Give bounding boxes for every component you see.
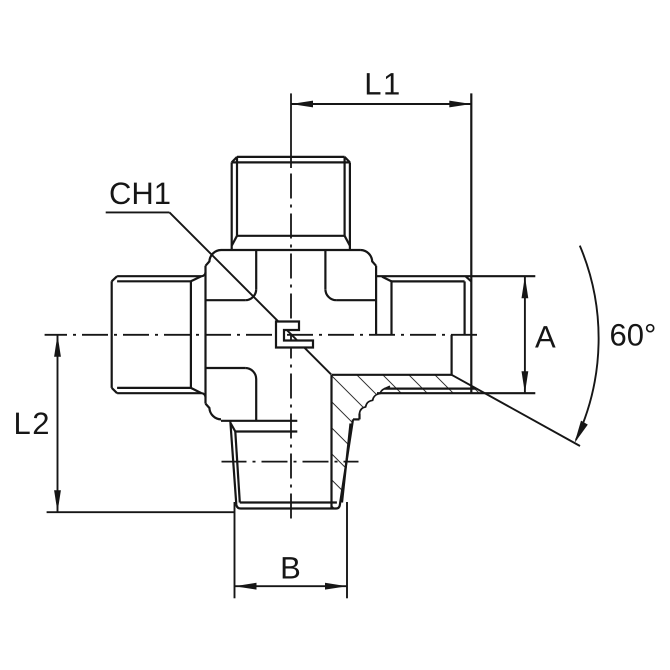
left threaded port (112, 272, 206, 397)
right side (sectioned): bore wall + taper root (330, 375, 332, 509)
svg-text:CH1: CH1 (109, 176, 171, 211)
bottom tapered port (221, 375, 360, 509)
60 degree cone line and dimension arc (452, 375, 580, 446)
left taper (230, 419, 353, 508)
svg-text:L2: L2 (14, 406, 51, 441)
horizontal centerline (45, 334, 483, 336)
vertical centerline (also L1 left extension) (290, 93, 292, 168)
dimension L1 (291, 103, 471, 105)
stamped E mark at body center (white filled) (276, 322, 313, 348)
svg-text:L1: L1 (364, 67, 401, 102)
right threaded port (sectioned below centerline) (332, 93, 536, 393)
interior upper-left (255, 250, 257, 289)
hatching of broken-out section (right port lower wall + bottom port right wall) (332, 375, 485, 509)
dimension B (234, 502, 236, 598)
interior lower-left (206, 367, 246, 369)
body block with shoulders and quadrant fillets (206, 250, 377, 421)
body bottom-left fillet (206, 404, 222, 420)
svg-text:B: B (280, 551, 301, 586)
chamfer line (240, 501, 337, 503)
svg-text:A: A (535, 319, 556, 354)
dimension A (524, 276, 526, 393)
gauge plane centerline of bottom taper thread (222, 461, 359, 463)
interior upper-right (324, 250, 326, 289)
dimension L2 (57, 335, 59, 512)
arc arrowhead (575, 421, 588, 443)
CH1 leader line and bore intersection edge (single 45-degree line) (106, 211, 170, 213)
top threaded port (232, 157, 350, 250)
svg-text:60°: 60° (610, 318, 657, 353)
